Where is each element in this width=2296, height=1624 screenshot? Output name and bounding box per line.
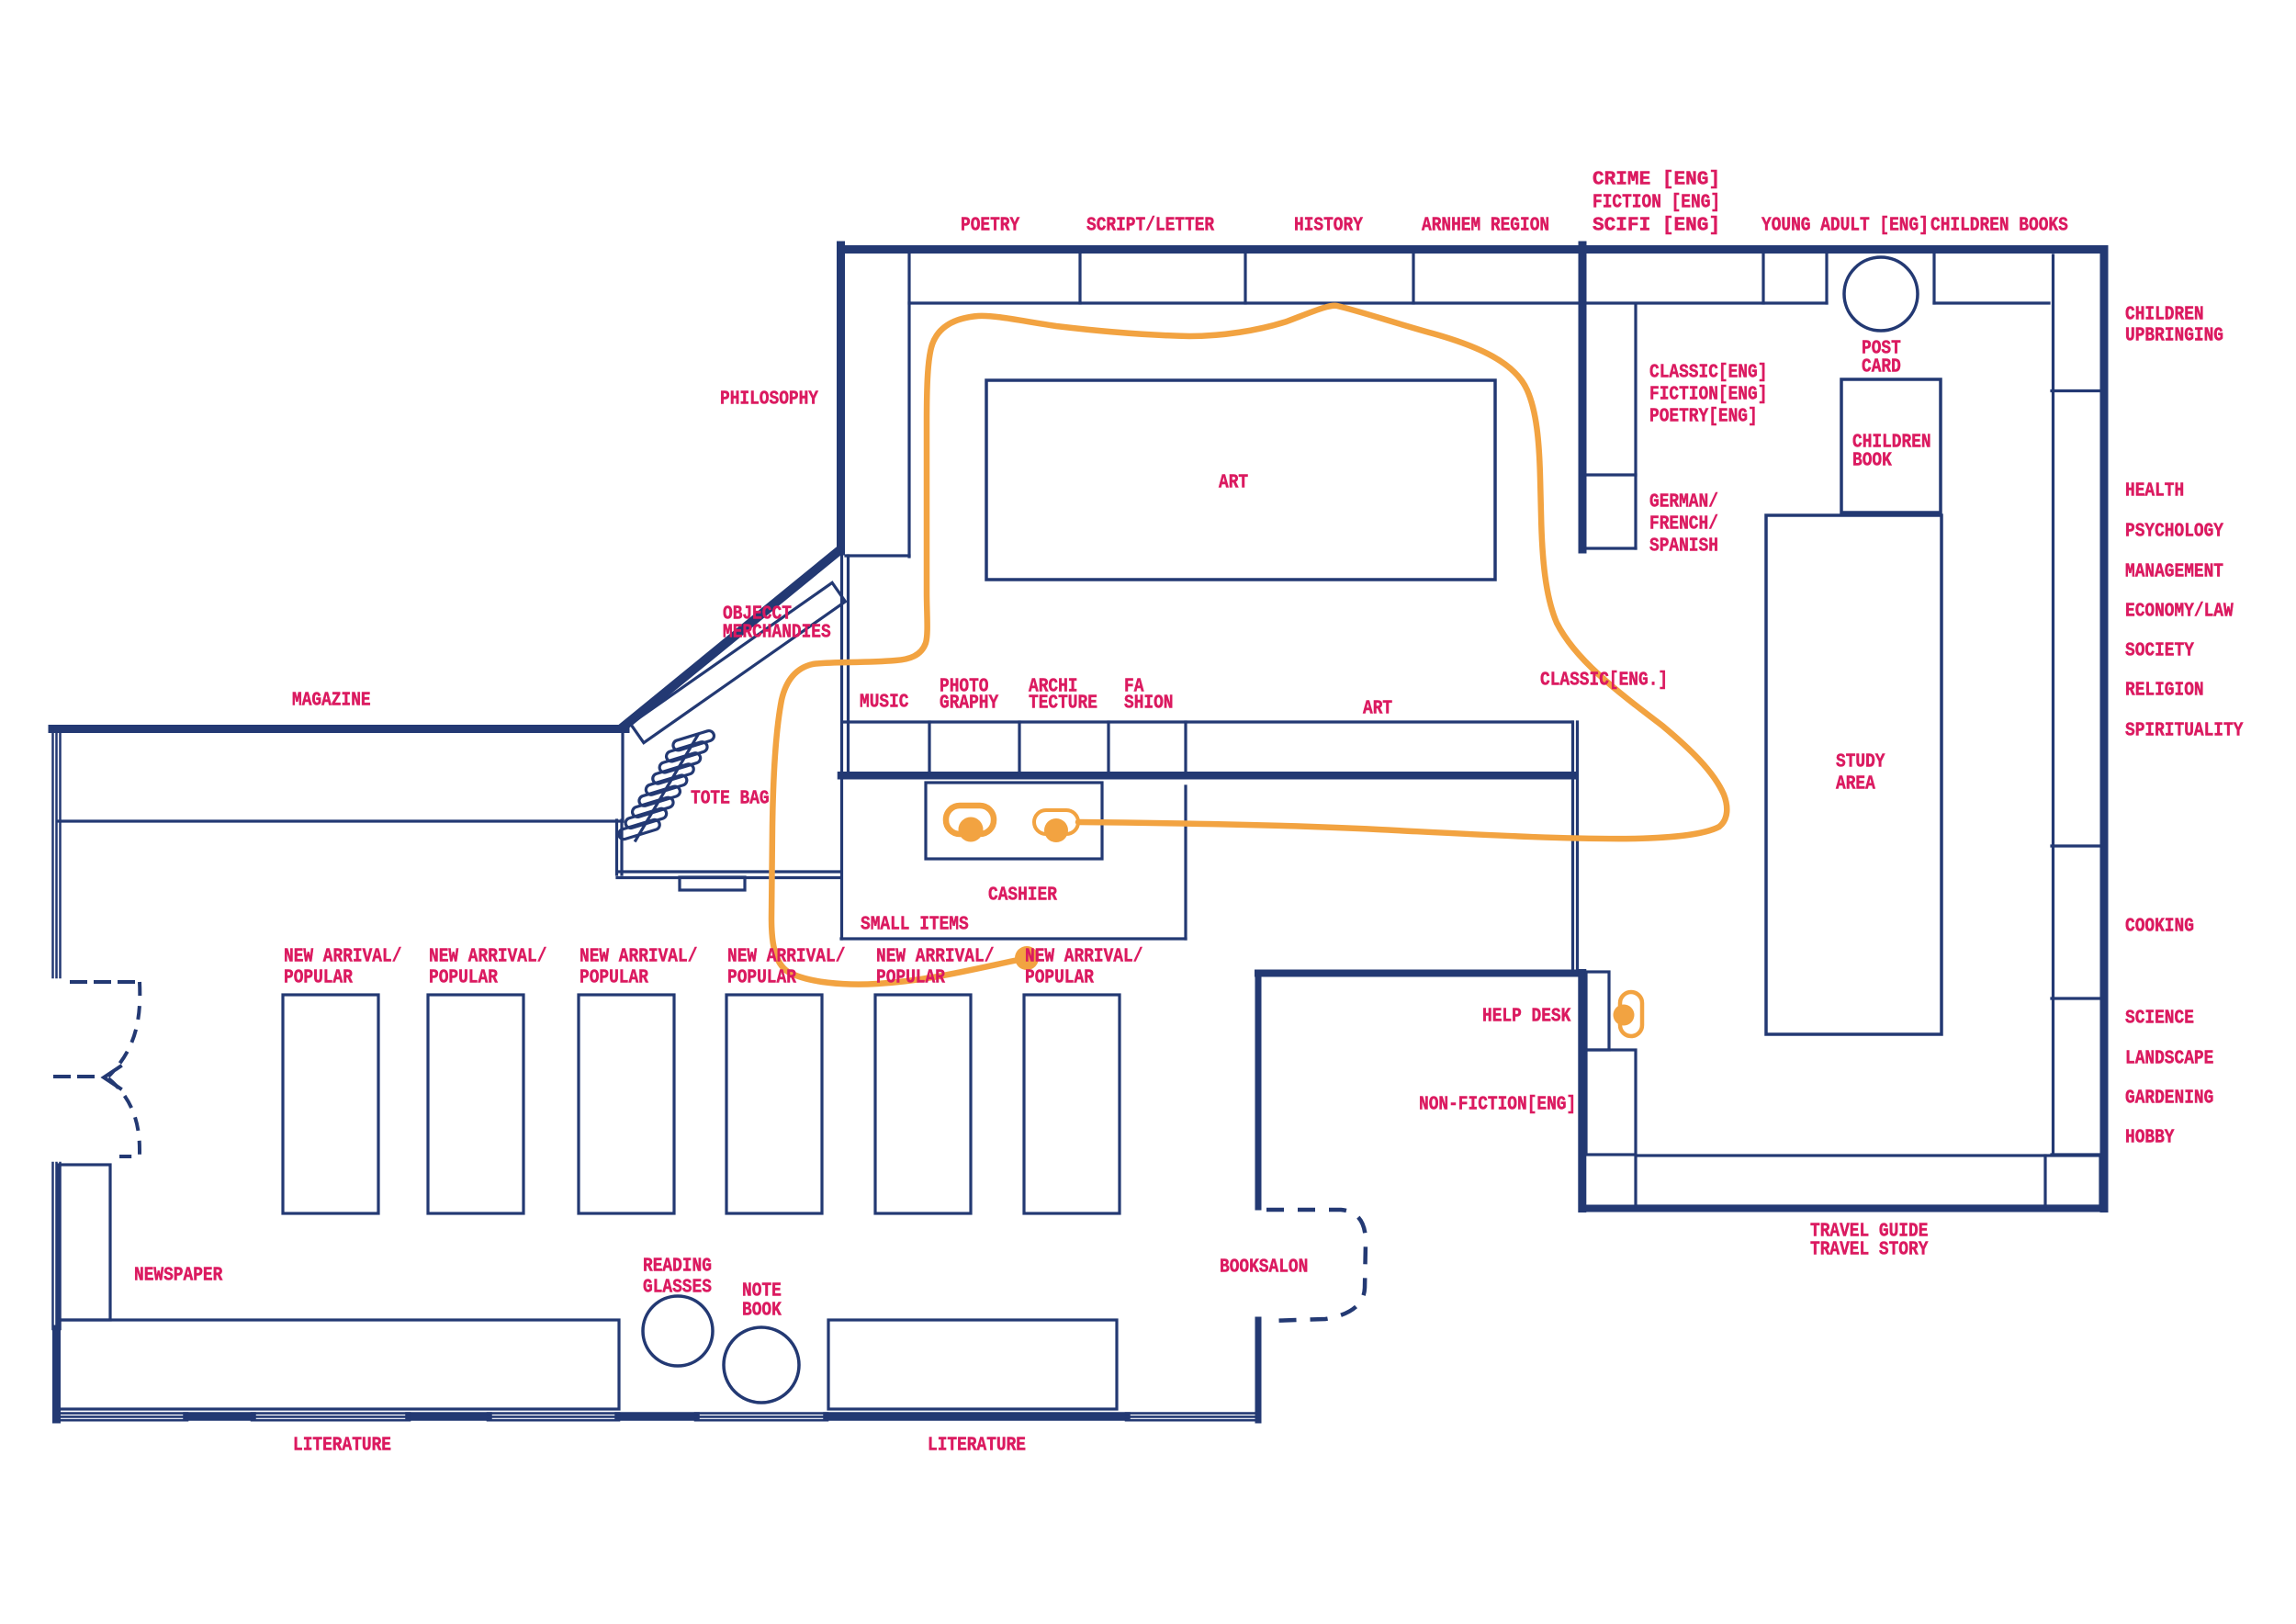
booksalon door dashed (1266, 1210, 1366, 1321)
shelf divider archi/fashion (1107, 722, 1109, 773)
svg-text:BOOK: BOOK (1852, 451, 1892, 472)
postcard circle (1844, 257, 1918, 331)
svg-text:CASHIER: CASHIER (988, 885, 1057, 907)
shelf divider photo/archi (1018, 722, 1020, 773)
wall middle band (counter wall) (841, 772, 1572, 780)
svg-text:SPANISH: SPANISH (1649, 536, 1718, 558)
svg-text:MANAGEMENT: MANAGEMENT (2125, 562, 2223, 583)
wall bottom (left room) solid segments (187, 1412, 252, 1421)
svg-text:TOTE BAG: TOTE BAG (691, 789, 770, 810)
svg-text:NEWSPAPER: NEWSPAPER (134, 1266, 223, 1287)
entrance door arrow (104, 1066, 120, 1088)
cashier marker 2 dot (1044, 818, 1068, 842)
shelf row right edge double lines (1571, 722, 1574, 970)
svg-text:HOBBY: HOBBY (2125, 1128, 2175, 1149)
svg-text:POETRY: POETRY (961, 216, 1020, 237)
bottom shelf row divider (2043, 1156, 2046, 1206)
wall lower-right room left (1578, 974, 1586, 1209)
svg-text:COOKING: COOKING (2125, 917, 2194, 938)
help desk marker stadium (1620, 992, 1642, 1036)
wall top (upper room) (841, 245, 2105, 254)
svg-text:HISTORY: HISTORY (1294, 216, 1363, 237)
svg-text:STUDY: STUDY (1836, 752, 1885, 773)
shelf german nook bottom cap (1586, 547, 1636, 549)
shelf philosophy bottom cap (846, 554, 909, 557)
shelf divider history/arnhem (1412, 253, 1414, 303)
new arrival shelf 4 (726, 995, 822, 1213)
art table big rect (986, 380, 1495, 580)
wall right (outer east wall) (2100, 250, 2109, 1209)
new arrival shelf 5 (875, 995, 971, 1213)
svg-text:NOTE: NOTE (742, 1281, 782, 1303)
svg-text:CARD: CARD (1862, 357, 1901, 378)
right column divider 1 (2052, 389, 2100, 392)
svg-text:RELIGION: RELIGION (2125, 681, 2204, 702)
magazine shelf bottom line (59, 819, 623, 822)
svg-text:NEW ARRIVAL/: NEW ARRIVAL/ (580, 947, 697, 968)
cashier room right edge (1184, 786, 1187, 939)
cashier counter rect (926, 783, 1102, 859)
shelf divider script/history (1244, 253, 1246, 303)
new arrival shelf 1 (283, 995, 378, 1213)
shelf row left edge lines (840, 553, 843, 939)
window bottom left room segments (56, 1412, 187, 1415)
svg-text:PSYCHOLOGY: PSYCHOLOGY (2125, 522, 2223, 543)
svg-text:LANDSCAPE: LANDSCAPE (2125, 1049, 2213, 1070)
orange route (771, 306, 1727, 1036)
right column divider 2 (2052, 844, 2100, 847)
new arrival shelf 2 (428, 995, 523, 1213)
magazine shelf right edge (621, 730, 624, 821)
svg-text:YOUNG ADULT [ENG]: YOUNG ADULT [ENG] (1761, 216, 1929, 237)
newspaper shelf (59, 1165, 110, 1320)
wall diagonal (624, 551, 838, 727)
shelf classic-eng nook right edge (1634, 306, 1637, 548)
tote bag rack spine (636, 735, 698, 840)
svg-text:CHILDREN: CHILDREN (2125, 305, 2204, 326)
svg-text:POPULAR: POPULAR (1025, 968, 1094, 989)
children book box (1841, 379, 1941, 513)
svg-text:POPULAR: POPULAR (727, 968, 796, 989)
svg-text:FRENCH/: FRENCH/ (1649, 514, 1718, 536)
vestibule bottom double line (617, 870, 840, 873)
object merchandies shelf (rotated) (631, 582, 846, 742)
svg-text:POPULAR: POPULAR (580, 968, 648, 989)
entrance door left wall dash (55, 1075, 96, 1078)
right column bottom cap (2052, 1153, 2100, 1156)
svg-text:FICTION [ENG]: FICTION [ENG] (1593, 193, 1720, 214)
entrance door arc upper (108, 982, 140, 1077)
help desk marker dot (1614, 1005, 1635, 1026)
literature shelf right (828, 1320, 1117, 1409)
svg-text:SPIRITUALITY: SPIRITUALITY (2125, 721, 2244, 742)
svg-text:SOCIETY: SOCIETY (2125, 641, 2194, 662)
svg-text:SCIFI [ENG]: SCIFI [ENG] (1593, 216, 1720, 237)
new arrival shelf 3 (579, 995, 674, 1213)
svg-text:HELP DESK: HELP DESK (1482, 1007, 1571, 1028)
svg-text:NEW ARRIVAL/: NEW ARRIVAL/ (876, 947, 994, 968)
svg-text:GLASSES: GLASSES (643, 1278, 712, 1299)
svg-text:MUSIC: MUSIC (860, 693, 909, 714)
entrance door arc lower (108, 1078, 140, 1156)
svg-text:AREA: AREA (1836, 774, 1875, 795)
svg-text:NEW ARRIVAL/: NEW ARRIVAL/ (1025, 947, 1142, 968)
doormat rect (680, 877, 745, 890)
svg-text:GARDENING: GARDENING (2125, 1088, 2213, 1110)
cashier room bottom line (841, 937, 1186, 940)
cashier marker 2 stadium (1034, 810, 1078, 834)
study area box (1766, 515, 1941, 1034)
svg-text:SHION: SHION (1124, 694, 1174, 715)
svg-text:GRAPHY: GRAPHY (940, 694, 999, 715)
wall lower-right room top (1258, 970, 1582, 977)
svg-text:SCRIPT/LETTER: SCRIPT/LETTER (1086, 216, 1214, 237)
shelf divider music/photo (928, 722, 930, 773)
svg-text:CLASSIC[ENG]: CLASSIC[ENG] (1649, 363, 1767, 384)
svg-text:POETRY[ENG]: POETRY[ENG] (1649, 407, 1758, 428)
svg-text:CRIME [ENG]: CRIME [ENG] (1593, 170, 1720, 191)
svg-text:NEW ARRIVAL/: NEW ARRIVAL/ (727, 947, 845, 968)
shelf german nook top cap (1586, 473, 1636, 476)
shelf row music-art top line (843, 720, 1572, 723)
wall booksalon lower segment (1255, 1320, 1262, 1420)
cashier marker 1 stadium (946, 806, 994, 834)
svg-text:ARNHEM REGION: ARNHEM REGION (1422, 216, 1549, 237)
help desk shelf small (1586, 972, 1609, 1050)
svg-text:TRAVEL STORY: TRAVEL STORY (1810, 1240, 1929, 1261)
svg-text:ART: ART (1219, 473, 1248, 494)
shelf divider young adult (1761, 253, 1764, 303)
cashier marker 1 dot (959, 818, 984, 842)
help desk shelf large (1586, 1050, 1636, 1155)
svg-text:FICTION[ENG]: FICTION[ENG] (1649, 385, 1767, 406)
svg-text:CHILDREN BOOKS: CHILDREN BOOKS (1930, 216, 2068, 237)
svg-text:ECONOMY/LAW: ECONOMY/LAW (2125, 602, 2234, 623)
window left wall upper (51, 728, 54, 977)
svg-text:CLASSIC[ENG.]: CLASSIC[ENG.] (1540, 671, 1668, 692)
reading glasses circle (643, 1296, 713, 1366)
svg-text:BOOK: BOOK (742, 1301, 782, 1322)
svg-text:BOOKSALON: BOOKSALON (1220, 1257, 1308, 1279)
shelf divider at postcard right (1932, 253, 1935, 303)
svg-text:POPULAR: POPULAR (876, 968, 945, 989)
svg-text:LITERATURE: LITERATURE (928, 1436, 1026, 1457)
vestibule left double line (615, 820, 618, 874)
window left wall lower (51, 1163, 54, 1329)
wall left lower (thick piece) (52, 1329, 61, 1419)
right wall shelf column inner edge (2052, 255, 2054, 1155)
svg-text:SMALL ITEMS: SMALL ITEMS (861, 915, 969, 936)
shelf divider at postcard left (1825, 253, 1828, 303)
shelf row top right (scifi-childrenbooks) bottom line (1586, 301, 1827, 304)
svg-text:NEW ARRIVAL/: NEW ARRIVAL/ (429, 947, 546, 968)
wall bottom (right room) (1582, 1205, 2104, 1212)
shelf left edge philosophy column (907, 253, 910, 557)
svg-text:POPULAR: POPULAR (429, 968, 498, 989)
wall left (upper room) (837, 245, 845, 551)
svg-text:MERCHANDIES: MERCHANDIES (723, 623, 831, 644)
svg-text:NEW ARRIVAL/: NEW ARRIVAL/ (284, 947, 401, 968)
route end dot (1015, 946, 1039, 970)
entrance door dash top (72, 980, 140, 984)
svg-text:TECTURE: TECTURE (1029, 694, 1097, 715)
right column divider 3 (2052, 997, 2100, 999)
svg-text:LITERATURE: LITERATURE (293, 1436, 391, 1457)
wall divider (scifi wall) (1579, 245, 1587, 549)
svg-text:READING: READING (643, 1257, 712, 1278)
tote bag loops (617, 729, 715, 840)
svg-text:HEALTH: HEALTH (2125, 481, 2184, 502)
shelf divider poetry/script (1078, 253, 1081, 303)
new arrival shelf 6 (1024, 995, 1120, 1213)
svg-text:GERMAN/: GERMAN/ (1649, 492, 1718, 513)
svg-text:NON-FICTION[ENG]: NON-FICTION[ENG] (1419, 1095, 1576, 1116)
svg-text:UPBRINGING: UPBRINGING (2125, 326, 2223, 347)
wall booksalon upper segment (1255, 974, 1262, 1208)
literature shelf left (59, 1320, 619, 1409)
svg-text:ART: ART (1363, 699, 1392, 720)
shelf divider fashion/art (1184, 722, 1187, 773)
wall magazine (52, 725, 625, 733)
bottom shelf row right room (1636, 1156, 2100, 1206)
shelf row top (poetry-arnhem) bottom line (909, 301, 1579, 304)
svg-text:PHILOSOPHY: PHILOSOPHY (720, 389, 818, 411)
svg-text:SCIENCE: SCIENCE (2125, 1009, 2194, 1030)
note book circle (724, 1327, 799, 1403)
svg-text:POPULAR: POPULAR (284, 968, 353, 989)
svg-text:MAGAZINE: MAGAZINE (292, 691, 371, 712)
